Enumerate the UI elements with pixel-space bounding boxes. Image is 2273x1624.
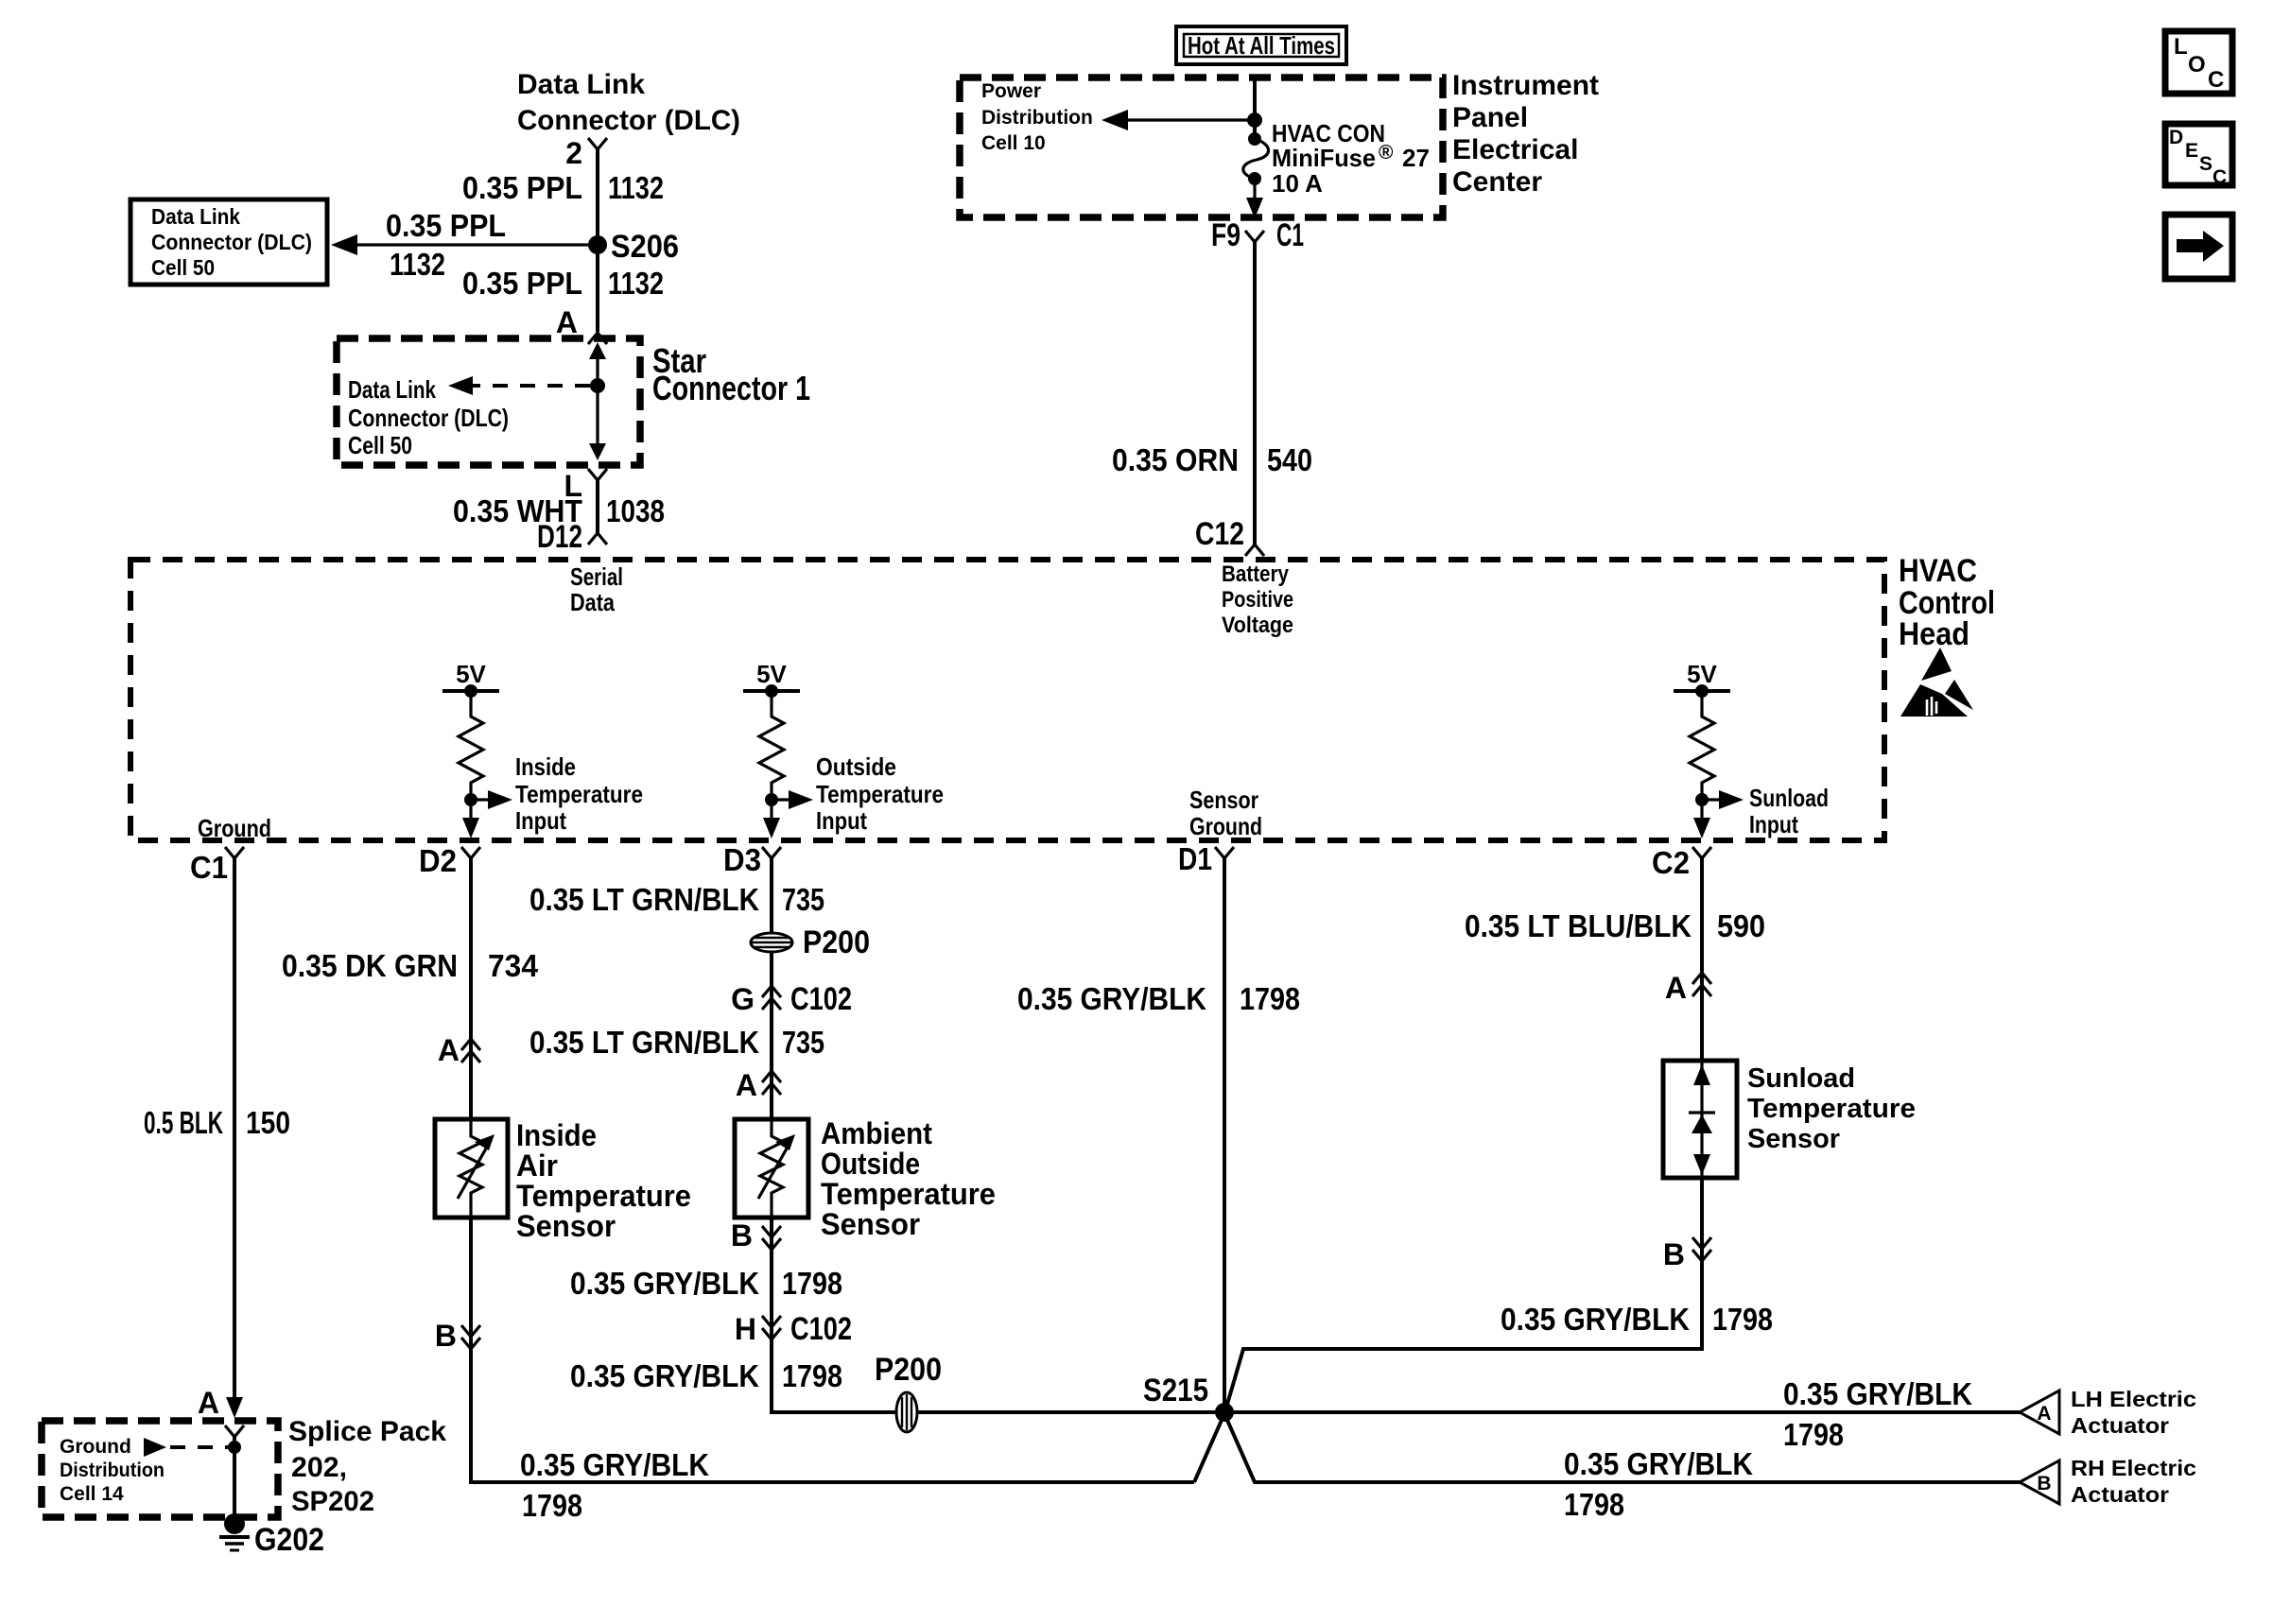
wire inside air sensor B to RH run <box>471 1218 1194 1482</box>
svg-text:Instrument: Instrument <box>1452 70 1599 101</box>
wire label 0.35 ORN 540 <box>1112 442 1312 477</box>
svg-text:Temperature: Temperature <box>821 1177 996 1211</box>
svg-text:1798: 1798 <box>1564 1487 1624 1522</box>
connector pin C12 (male Y) <box>1245 544 1264 556</box>
wire S215 to LH electric actuator <box>1224 1410 2020 1414</box>
svg-text:1132: 1132 <box>608 170 664 205</box>
svg-text:5V: 5V <box>456 660 486 688</box>
resistor inside temp pull-up <box>459 691 483 800</box>
svg-text:Sensor: Sensor <box>516 1209 616 1243</box>
svg-text:1798: 1798 <box>782 1266 842 1301</box>
svg-text:0.35 GRY/BLK: 0.35 GRY/BLK <box>520 1447 709 1482</box>
svg-text:E: E <box>2185 140 2198 162</box>
connector C102 H chevrons (down) <box>762 1316 781 1339</box>
svg-text:1132: 1132 <box>390 247 445 282</box>
connector B chevrons (down) <box>461 1325 480 1349</box>
svg-text:Connector (DLC): Connector (DLC) <box>348 404 509 432</box>
node splice pack tap <box>228 1441 241 1454</box>
star connector 1 dashed box <box>337 338 640 465</box>
svg-text:Air: Air <box>516 1149 558 1183</box>
wire label 0.35 GRY/BLK 1798 (LH) <box>1783 1376 1972 1452</box>
wire label 0.35 GRY/BLK 1798 (D1) <box>1017 981 1300 1016</box>
wire D1 sensor ground to S215 <box>1223 858 1226 1412</box>
wire label 0.35 LT GRN/BLK 735 (upper) <box>529 882 824 917</box>
pass-through P200 (horizontal lens) <box>751 924 870 960</box>
svg-text:Battery: Battery <box>1222 561 1290 587</box>
sunload temperature sensor box <box>1663 1061 1737 1178</box>
svg-text:5V: 5V <box>756 660 787 688</box>
svg-text:0.35 GRY/BLK: 0.35 GRY/BLK <box>1501 1302 1690 1337</box>
svg-text:Cell 14: Cell 14 <box>60 1483 124 1505</box>
wire label 0.5 BLK 150 <box>144 1105 290 1140</box>
resistor outside temp pull-up <box>759 691 784 800</box>
wire RH run crossing at S215 <box>1194 1418 2020 1482</box>
svg-text:C1: C1 <box>1276 217 1304 253</box>
svg-text:Data Link: Data Link <box>151 204 240 229</box>
svg-text:734: 734 <box>488 948 539 983</box>
svg-text:735: 735 <box>782 882 824 917</box>
svg-text:0.35 GRY/BLK: 0.35 GRY/BLK <box>1564 1446 1753 1481</box>
wire fuse to F9 (arrow down) <box>1246 179 1263 218</box>
box Data Link Connector (DLC) Cell 50 <box>130 199 327 285</box>
svg-text:Cell 50: Cell 50 <box>348 431 412 459</box>
wire inside temp tap to D2 (arrow down) <box>462 800 479 838</box>
svg-text:O: O <box>2188 52 2206 78</box>
arrow outside temperature input <box>772 790 813 809</box>
svg-text:Actuator: Actuator <box>2071 1482 2169 1507</box>
dashed wire ground distribution to splice (arrow right) <box>144 1438 229 1457</box>
5V supply rail (outside temp) <box>743 660 800 698</box>
wire label 0.35 GRY/BLK 1798 (ambient B) <box>570 1266 842 1301</box>
svg-text:27: 27 <box>1402 144 1430 172</box>
svg-text:Connector (DLC): Connector (DLC) <box>517 105 740 136</box>
svg-text:Actuator: Actuator <box>2071 1413 2169 1438</box>
svg-text:0.35 LT GRN/BLK: 0.35 LT GRN/BLK <box>529 1025 759 1060</box>
star box inner label Data Link Connector (DLC) Cell 50 <box>348 375 509 459</box>
svg-text:C102: C102 <box>790 981 852 1017</box>
svg-text:D1: D1 <box>1178 841 1212 876</box>
svg-text:0.35 GRY/BLK: 0.35 GRY/BLK <box>1783 1376 1972 1411</box>
wire label 0.35 GRY/BLK 1798 (bottom left) <box>520 1447 709 1523</box>
wire sunload B to S215 <box>1226 1178 1702 1408</box>
svg-text:Temperature: Temperature <box>515 780 643 808</box>
svg-text:0.35 GRY/BLK: 0.35 GRY/BLK <box>570 1358 759 1393</box>
svg-text:0.35 PPL: 0.35 PPL <box>462 170 582 205</box>
ESD sensitivity symbol <box>1900 648 1973 717</box>
svg-text:A: A <box>198 1386 219 1420</box>
svg-text:150: 150 <box>246 1105 290 1140</box>
svg-text:Data Link: Data Link <box>348 375 436 404</box>
component title Inside Air Temperature Sensor <box>516 1118 691 1243</box>
connector pin C2 (female Y) <box>1692 847 1711 858</box>
svg-text:C102: C102 <box>790 1311 852 1347</box>
wire label 0.35 GRY/BLK 1798 (RH) <box>1564 1446 1753 1522</box>
svg-text:A: A <box>2037 1403 2051 1425</box>
svg-text:540: 540 <box>1267 442 1312 477</box>
svg-text:A: A <box>556 305 578 339</box>
wire sunload tap to C2 (arrow down) <box>1693 800 1710 838</box>
svg-text:A: A <box>1665 971 1687 1005</box>
svg-text:Voltage: Voltage <box>1222 613 1293 638</box>
5V supply rail (sunload) <box>1674 660 1730 698</box>
net label sensor ground <box>1189 786 1262 840</box>
net label serial data <box>570 562 623 616</box>
fuse HVAC CON MiniFuse 27 10A <box>1243 132 1269 185</box>
wire star connector to HVAC D12 <box>596 480 599 533</box>
svg-text:Power: Power <box>981 80 1041 102</box>
svg-text:Cell 50: Cell 50 <box>151 255 215 280</box>
wire battery feed into fuse <box>1253 78 1257 139</box>
svg-text:S206: S206 <box>611 229 679 265</box>
svg-text:0.35 ORN: 0.35 ORN <box>1112 442 1239 477</box>
connector pin D1 (female Y) <box>1215 847 1234 858</box>
resistor sunload pull-up <box>1690 691 1714 800</box>
svg-text:Distribution: Distribution <box>60 1460 165 1481</box>
node outside temp sense tap <box>765 793 778 806</box>
5V supply rail (inside temp) <box>442 660 499 698</box>
svg-text:F9: F9 <box>1211 217 1241 253</box>
svg-text:P200: P200 <box>803 924 870 960</box>
svg-text:Data Link: Data Link <box>517 69 645 100</box>
svg-text:202,: 202, <box>291 1452 347 1483</box>
splice S215 <box>1143 1373 1234 1422</box>
wire outside temp tap to D3 (arrow down) <box>763 800 780 838</box>
component title Ambient Outside Temperature Sensor <box>821 1116 996 1241</box>
svg-text:Positive: Positive <box>1222 587 1293 613</box>
connector pin L (female Y) <box>588 469 607 480</box>
label outside temperature input <box>816 752 944 835</box>
thermistor inside air <box>458 1119 495 1218</box>
wire label 0.35 WHT 1038 <box>453 493 665 528</box>
svg-text:735: 735 <box>782 1025 824 1060</box>
net label battery positive voltage <box>1222 561 1293 638</box>
label LH electric actuator <box>2071 1387 2196 1438</box>
wire C2 to sunload sensor <box>1700 858 1704 1061</box>
splice S206 <box>588 229 679 265</box>
node star connector tap <box>590 378 605 393</box>
svg-text:A: A <box>438 1033 460 1067</box>
svg-text:1798: 1798 <box>1783 1417 1844 1452</box>
svg-text:C1: C1 <box>190 850 228 885</box>
fuse value label <box>1272 119 1430 198</box>
svg-text:SP202: SP202 <box>291 1486 374 1517</box>
svg-text:Electrical: Electrical <box>1452 134 1578 165</box>
connector pin A (male Y) <box>588 333 607 344</box>
svg-text:Head: Head <box>1899 616 1969 652</box>
pass-through P200 (vertical lens) <box>875 1352 942 1432</box>
off-page connector B RH electric actuator <box>2020 1460 2059 1504</box>
node power distribution tap <box>1247 112 1262 128</box>
component title Sunload Temperature Sensor <box>1747 1063 1916 1154</box>
label power distribution cell 10 <box>981 80 1093 154</box>
component title HVAC Control Head <box>1899 553 1995 652</box>
svg-text:0.35 DK GRN: 0.35 DK GRN <box>282 948 458 983</box>
HVAC control head dashed box <box>130 560 1884 840</box>
svg-text:L: L <box>2174 34 2188 60</box>
svg-text:Connector (DLC): Connector (DLC) <box>151 230 312 254</box>
wire label 0.35 GRY/BLK 1798 (below H) <box>570 1358 842 1393</box>
svg-text:B: B <box>1663 1237 1685 1271</box>
svg-text:Data: Data <box>570 588 615 616</box>
svg-text:0.35 GRY/BLK: 0.35 GRY/BLK <box>1017 981 1206 1016</box>
connector pin F9 (female Y) <box>1245 231 1264 242</box>
connector pin D2 (female Y) <box>461 847 480 858</box>
svg-text:Ground: Ground <box>1189 812 1262 840</box>
box DESC <box>2165 124 2232 188</box>
svg-text:Input: Input <box>515 806 566 835</box>
svg-text:Inside: Inside <box>515 752 576 781</box>
svg-text:S215: S215 <box>1143 1373 1208 1408</box>
svg-text:C2: C2 <box>1652 845 1690 880</box>
node inside temp sense tap <box>464 793 477 806</box>
svg-text:MiniFuse: MiniFuse <box>1272 144 1376 172</box>
svg-text:Temperature: Temperature <box>1747 1094 1916 1124</box>
svg-text:Distribution: Distribution <box>981 107 1093 129</box>
component title Star Connector 1 <box>652 341 810 407</box>
wire D3 to P200 <box>770 858 773 934</box>
arrow inside temperature input <box>471 790 512 809</box>
connector C102 G chevrons (up) <box>762 986 781 1010</box>
wire splice Y to ground <box>233 1437 236 1524</box>
svg-text:®: ® <box>1379 142 1394 164</box>
svg-text:P200: P200 <box>875 1352 942 1388</box>
label RH electric actuator <box>2071 1456 2196 1507</box>
svg-text:Temperature: Temperature <box>816 780 944 808</box>
svg-text:Center: Center <box>1452 166 1542 198</box>
svg-text:0.35 GRY/BLK: 0.35 GRY/BLK <box>570 1266 759 1301</box>
connector pin 2 (female Y) <box>588 138 607 149</box>
svg-text:Temperature: Temperature <box>516 1179 691 1213</box>
wire label 0.35 GRY/BLK 1798 (sunload B) <box>1501 1302 1773 1337</box>
node sunload sense tap <box>1695 793 1709 806</box>
connector pin D12 (male Y) <box>588 533 607 544</box>
box Hot At All Times <box>1176 26 1346 64</box>
wire H to S215 splice <box>772 1410 1223 1412</box>
svg-text:1798: 1798 <box>782 1358 842 1393</box>
svg-text:1798: 1798 <box>1712 1302 1773 1337</box>
connector pin splice pack (female Y) <box>225 1425 244 1437</box>
svg-text:Sunload: Sunload <box>1749 784 1829 812</box>
thermistor ambient outside <box>758 1119 795 1218</box>
svg-text:0.35 LT GRN/BLK: 0.35 LT GRN/BLK <box>529 882 759 917</box>
svg-text:Splice Pack: Splice Pack <box>288 1416 446 1447</box>
box LOC <box>2165 31 2232 94</box>
inside air temperature sensor box <box>435 1119 508 1218</box>
svg-text:Hot At All Times: Hot At All Times <box>1188 31 1335 60</box>
wire ambient B to C102 H <box>770 1218 773 1412</box>
svg-text:Sunload: Sunload <box>1747 1063 1855 1094</box>
svg-text:B: B <box>2037 1473 2051 1494</box>
svg-text:Serial: Serial <box>570 562 623 591</box>
wire D2 to inside air temp sensor <box>469 858 473 1119</box>
dashed wire star tap to DLC (arrow left) <box>448 376 590 395</box>
svg-text:5V: 5V <box>1687 660 1717 688</box>
component title Instrument Panel Electrical Center <box>1452 70 1599 198</box>
svg-text:LH Electric: LH Electric <box>2071 1387 2196 1411</box>
svg-text:Sensor: Sensor <box>821 1207 920 1241</box>
ground G202 <box>219 1513 324 1558</box>
svg-text:D12: D12 <box>537 519 582 555</box>
wire inside star connector (both-end arrows) <box>589 342 606 460</box>
svg-text:Connector 1: Connector 1 <box>652 369 810 407</box>
label inside temperature input <box>515 752 643 835</box>
label sunload input <box>1749 784 1829 838</box>
svg-text:G202: G202 <box>254 1522 324 1558</box>
wire S206 to DLC cell 50 box (arrow left) <box>331 234 598 255</box>
svg-text:0.35 LT BLU/BLK: 0.35 LT BLU/BLK <box>1465 908 1692 943</box>
wire DLC pin 2 to S206 to pin A <box>596 149 599 332</box>
svg-text:B: B <box>435 1319 457 1353</box>
component title Data Link Connector (DLC) <box>517 69 740 136</box>
svg-text:10 A: 10 A <box>1272 169 1323 198</box>
svg-text:2: 2 <box>565 136 582 170</box>
component title Splice Pack 202 SP202 <box>288 1416 446 1517</box>
svg-text:G: G <box>731 982 755 1016</box>
svg-text:D2: D2 <box>419 843 457 878</box>
svg-text:Input: Input <box>816 806 867 835</box>
svg-text:Ground: Ground <box>198 814 271 842</box>
svg-text:Ground: Ground <box>60 1436 131 1458</box>
svg-text:C: C <box>2208 67 2224 93</box>
wire label 0.35 PPL 1132 (upper) <box>462 170 664 205</box>
svg-text:S: S <box>2199 153 2212 175</box>
svg-text:0.35 PPL: 0.35 PPL <box>386 208 506 243</box>
connector B chevrons (down, sunload) <box>1692 1237 1711 1261</box>
svg-text:Ambient: Ambient <box>821 1116 932 1150</box>
svg-text:A: A <box>736 1068 757 1102</box>
splice pack dashed box <box>42 1421 278 1517</box>
svg-text:1038: 1038 <box>606 493 665 528</box>
wire label 0.35 DK GRN 734 <box>282 948 539 983</box>
svg-text:Input: Input <box>1749 810 1798 838</box>
connector pin C1 (female Y) <box>225 847 244 858</box>
wire label 0.35 LT GRN/BLK 735 (lower) <box>529 1025 824 1060</box>
wire F9 to HVAC C12 <box>1253 242 1257 544</box>
svg-text:Panel: Panel <box>1452 102 1528 133</box>
svg-text:HVAC: HVAC <box>1899 553 1977 589</box>
svg-text:Sensor: Sensor <box>1189 786 1258 814</box>
svg-text:RH Electric: RH Electric <box>2071 1456 2196 1480</box>
connector pin D3 (female Y) <box>762 847 781 858</box>
svg-text:D3: D3 <box>723 842 761 877</box>
svg-text:0.35 PPL: 0.35 PPL <box>462 266 582 301</box>
connector A chevrons (up) <box>461 1039 480 1063</box>
photodiode sunload sensor <box>1689 1061 1715 1178</box>
svg-text:H: H <box>735 1312 756 1346</box>
connector A chevrons (up, sunload) <box>1692 973 1711 996</box>
svg-text:1132: 1132 <box>608 266 664 301</box>
svg-text:B: B <box>731 1218 753 1253</box>
wire C1 to splice pack (arrow down) <box>226 858 243 1418</box>
connector A chevrons (up, ambient) <box>762 1071 781 1095</box>
svg-text:C12: C12 <box>1195 516 1244 552</box>
svg-text:Outside: Outside <box>816 752 896 781</box>
svg-text:0.5 BLK: 0.5 BLK <box>144 1105 223 1140</box>
wire label 0.35 PPL 1132 (lower) <box>462 266 664 301</box>
wire label 0.35 LT BLU/BLK 590 <box>1465 908 1765 943</box>
arrow sunload input <box>1702 790 1744 809</box>
svg-text:C: C <box>2212 166 2227 188</box>
svg-text:Outside: Outside <box>821 1147 920 1181</box>
wire tap to power distribution (arrow left) <box>1102 110 1255 130</box>
off-page connector A LH electric actuator <box>2020 1391 2059 1434</box>
svg-text:Inside: Inside <box>516 1118 597 1152</box>
svg-text:1798: 1798 <box>522 1488 582 1523</box>
svg-text:590: 590 <box>1717 908 1765 943</box>
box forward arrow <box>2165 215 2232 279</box>
connector B chevrons (down, ambient) <box>762 1226 781 1250</box>
ambient outside temperature sensor box <box>735 1119 808 1218</box>
instrument panel electrical center dashed box <box>960 78 1443 217</box>
svg-text:Cell 10: Cell 10 <box>981 132 1046 154</box>
svg-text:D: D <box>2169 127 2183 148</box>
svg-text:1798: 1798 <box>1240 981 1300 1016</box>
wire P200 to C102 G <box>770 951 773 1119</box>
label ground distribution cell 14 <box>60 1436 165 1505</box>
svg-text:Sensor: Sensor <box>1747 1124 1840 1154</box>
